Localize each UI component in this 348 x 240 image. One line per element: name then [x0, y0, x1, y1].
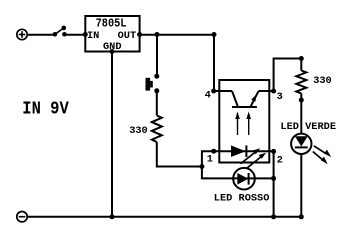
svg-text:330: 330 — [313, 75, 332, 87]
phototransistor emitter with arrow — [251, 91, 259, 106]
node pushbutton branch — [155, 32, 160, 37]
switch S1 (open SPST) — [53, 26, 67, 37]
wire pin2 down to rosso junction and bottom rail — [273, 151, 275, 217]
node corner to opto pin4 — [212, 32, 217, 37]
pin IN dot — [83, 32, 88, 37]
opto LED emission arrows — [241, 148, 267, 168]
svg-text:1: 1 — [207, 154, 213, 166]
wire GND vertical to bottom rail — [111, 52, 113, 218]
wire pushbutton to resistor R1 — [156, 91, 158, 116]
opto internal LED — [219, 145, 273, 157]
wire switch to regulator IN — [64, 34, 85, 36]
svg-text:LED VERDE: LED VERDE — [280, 121, 336, 133]
wire pin3 up and right to R2 — [274, 59, 302, 92]
terminal - (input negative) — [17, 212, 27, 222]
svg-text:2: 2 — [277, 155, 283, 167]
phototransistor base bar — [232, 106, 257, 108]
wire OUT rail — [140, 34, 214, 36]
svg-text:3: 3 — [277, 91, 283, 103]
LED verde emission arrows — [313, 146, 331, 164]
wire LED verde to bottom rail — [300, 154, 302, 217]
LED D2 verde — [291, 134, 311, 154]
svg-text:IN: IN — [87, 30, 99, 42]
node LED rosso to pin2 wire junction — [271, 176, 276, 181]
pin 2 dot — [271, 149, 276, 154]
wire + terminal to switch — [27, 34, 54, 36]
pin 3 dot — [271, 89, 276, 94]
svg-text:4: 4 — [205, 89, 211, 101]
svg-text:IN 9V: IN 9V — [22, 99, 69, 120]
LED D1 rosso — [233, 168, 255, 190]
node pin2 branch bottom — [271, 214, 276, 219]
wire node A up to opto pin1 — [202, 151, 219, 166]
pin 4 dot — [211, 89, 216, 94]
resistor R1 330 zigzag — [152, 116, 162, 143]
pin 1 dot — [211, 149, 216, 154]
svg-text:7805L: 7805L — [96, 18, 127, 31]
pushbutton P1 — [146, 74, 160, 94]
wire node A down to LED rosso branch — [202, 167, 274, 179]
node LED verde bottom — [299, 214, 304, 219]
node GND bottom — [110, 214, 115, 219]
pin GND dot — [110, 49, 115, 54]
svg-text:LED ROSSO: LED ROSSO — [214, 193, 270, 205]
node A junction — [199, 164, 204, 169]
resistor R2 330 — [300, 59, 302, 71]
opto light arrows up — [235, 112, 251, 136]
svg-text:330: 330 — [129, 125, 148, 137]
node R2 top — [299, 56, 304, 61]
optocoupler U2 box — [219, 80, 269, 163]
wire R1 bottom to node A — [157, 142, 202, 167]
bottom rail wire — [27, 216, 301, 218]
wire pushbutton branch down — [156, 35, 158, 76]
regulator U1 7805L box — [85, 16, 139, 52]
phototransistor Q1 collector — [214, 90, 232, 92]
terminal + (input positive) — [17, 29, 27, 39]
wire R2 to LED verde — [300, 100, 302, 134]
wire pin4 vertical from OUT rail — [213, 35, 215, 91]
node R2 bottom — [299, 98, 304, 103]
pin OUT dot — [137, 32, 142, 37]
svg-text:GND: GND — [103, 41, 122, 53]
